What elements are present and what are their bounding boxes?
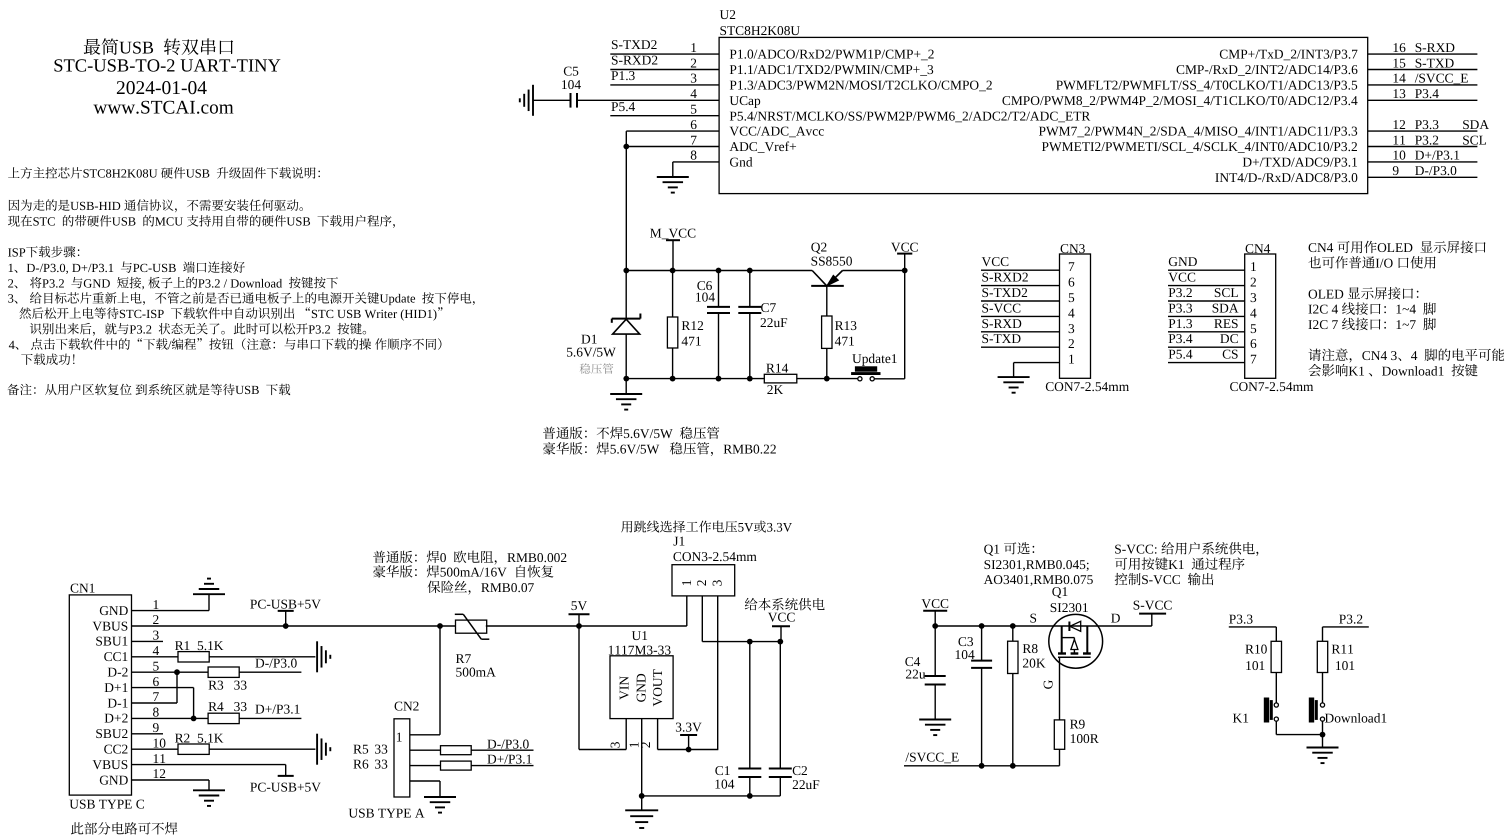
label: net P3.4	[1168, 331, 1193, 346]
svg-text:S-TXD: S-TXD	[982, 331, 1022, 346]
svg-text:S-RXD2: S-RXD2	[611, 53, 658, 68]
label: C5 refdes	[563, 64, 579, 79]
svg-text:VIN: VIN	[617, 676, 632, 700]
svg-text:Update1: Update1	[852, 351, 898, 366]
label: R7 refdes	[456, 651, 472, 666]
svg-text:R10: R10	[1245, 642, 1268, 657]
label: net P5.4	[1168, 347, 1193, 362]
svg-text:,: ,	[142, 276, 145, 290]
label: C1 refdes	[715, 763, 731, 778]
svg-text:USB: USB	[112, 215, 136, 229]
label: U1 value 1117M3-33	[608, 643, 672, 658]
svg-text:CON7-2.54mm: CON7-2.54mm	[1230, 379, 1315, 394]
svg-text:D-1: D-1	[107, 695, 128, 710]
label: CN1 pin name CC2	[104, 742, 129, 757]
svg-text:104: 104	[955, 647, 975, 662]
svg-text:VCC: VCC	[1168, 270, 1196, 285]
label: note 普通版 D1	[543, 426, 719, 441]
label: U1 pin number 2	[638, 741, 653, 748]
label: U2 pin name UCap	[729, 93, 761, 108]
label: net VCC	[891, 239, 919, 254]
label: net P3.4	[1415, 86, 1440, 101]
svg-text:Q1: Q1	[984, 541, 1000, 556]
svg-text:SBU1: SBU1	[95, 634, 128, 649]
svg-text:3.3V: 3.3V	[675, 720, 702, 735]
svg-text:4: 4	[1250, 305, 1257, 320]
junction C1 top	[747, 639, 753, 645]
ground C4	[919, 719, 951, 721]
svg-text:5: 5	[153, 658, 160, 673]
ground U2 pin8	[657, 176, 689, 178]
label: Download1 label	[1325, 711, 1388, 726]
label: U2 pin number 1	[690, 40, 697, 55]
wire U2 pin 10	[1368, 161, 1478, 163]
connector CN4 box	[1245, 254, 1276, 378]
svg-text:OLED: OLED	[1308, 286, 1344, 301]
junction R13-R14	[824, 376, 830, 382]
svg-text:1~7: 1~7	[1395, 317, 1416, 332]
label: net P3.3 k1	[1229, 611, 1254, 626]
svg-text:2: 2	[638, 741, 653, 748]
resistor R10	[1271, 641, 1281, 672]
svg-text:RMB0.22: RMB0.22	[723, 442, 776, 457]
label: net P3.3	[1415, 117, 1440, 132]
junction D+1/D+2	[191, 716, 197, 722]
label: net S-VCC	[982, 300, 1022, 315]
svg-text:OLED: OLED	[1377, 240, 1413, 255]
ground CC2 (rotated)	[316, 734, 318, 765]
wire CN1 pin6 D+1	[132, 687, 194, 689]
svg-text:M_VCC: M_VCC	[650, 225, 696, 240]
power PC-USB+5V top	[278, 610, 294, 612]
label: net S-TXD	[982, 331, 1022, 346]
resistor R4	[208, 713, 239, 723]
svg-text:0: 0	[440, 550, 447, 565]
svg-text:S-RXD: S-RXD	[982, 316, 1023, 331]
svg-text:1: 1	[396, 730, 403, 745]
svg-text:S-VCC: S-VCC	[1141, 572, 1181, 587]
svg-text:R5: R5	[353, 741, 369, 756]
wire M_VCC rail	[626, 270, 812, 272]
power PC-USB+5V bottom	[278, 775, 294, 777]
wire R11 to Download1	[1322, 673, 1324, 704]
label: net SCL	[1462, 132, 1487, 147]
label: Q1 refdes	[1052, 584, 1068, 599]
label: CN1 pin number 8	[153, 705, 160, 720]
wire U2 pin 15	[1368, 69, 1478, 71]
svg-text:DC: DC	[1220, 331, 1239, 346]
label: note right line 2	[1308, 256, 1435, 271]
label: U2 pin number 11	[1392, 132, 1405, 147]
svg-text:S-TXD: S-TXD	[1415, 55, 1455, 70]
svg-text:5.6V/5W: 5.6V/5W	[610, 442, 660, 457]
svg-text:GND: GND	[99, 603, 128, 618]
junction rail-CN2	[437, 623, 443, 629]
label: U2 pin name P5.4	[729, 108, 1090, 123]
label: C4 value 22u	[905, 667, 925, 682]
svg-text:1: 1	[1068, 352, 1075, 367]
wire CN1 pin9 SBU2	[132, 733, 164, 735]
svg-text:6: 6	[1068, 275, 1075, 290]
label: note SI2301 price	[984, 557, 1090, 572]
svg-text:100R: 100R	[1070, 731, 1099, 746]
label: note right line 3	[1308, 286, 1418, 301]
junction 3.3V	[686, 747, 692, 753]
svg-text:10: 10	[1392, 148, 1406, 163]
svg-text:3: 3	[690, 71, 697, 86]
wire rail down to CN2	[439, 626, 441, 735]
label: R5 refdes	[353, 741, 369, 756]
IC U2 MCU STC8H2K08U box	[719, 37, 1368, 193]
svg-text:S-VCC:: S-VCC:	[1114, 541, 1157, 556]
junction rail-C7	[747, 268, 753, 274]
junction U1 gnd	[639, 793, 645, 799]
svg-text:S-RXD2: S-RXD2	[982, 270, 1029, 285]
label: CN1 pin number 5	[153, 658, 160, 673]
svg-text:SI2301,RMB0.045;: SI2301,RMB0.045;	[984, 557, 1090, 572]
svg-text:/SVCC_E: /SVCC_E	[1415, 71, 1469, 86]
label: note line 7	[8, 292, 475, 306]
label: U2 pin name ADC_Vref+	[729, 139, 796, 154]
junction D1-gnd	[623, 376, 629, 382]
label: CN1 pin name VBUS	[92, 618, 128, 633]
label: CN4 pin number 5	[1250, 321, 1257, 336]
svg-text:5: 5	[690, 102, 697, 117]
switch Update1	[858, 377, 862, 381]
svg-text:I/O: I/O	[1375, 256, 1393, 271]
wire U1 VOUT	[657, 719, 659, 750]
label: R13 value 471	[835, 334, 855, 349]
svg-text:CN4: CN4	[1245, 241, 1271, 256]
svg-text:U2: U2	[720, 7, 736, 22]
wire CN3 pin1 to ground	[1013, 363, 1015, 378]
svg-text:5.1K: 5.1K	[197, 731, 224, 746]
ground CN2	[424, 796, 456, 798]
label: C2 value 22uF	[792, 777, 820, 792]
svg-text:4: 4	[1068, 305, 1075, 320]
label: CN1 pin name SBU2	[95, 726, 128, 741]
wire CN3 pin 1	[1014, 362, 1060, 364]
svg-text:3: 3	[1068, 321, 1075, 336]
label: net GND	[1168, 254, 1197, 269]
wire CN4 pin 5	[1168, 331, 1245, 333]
svg-text:5.1K: 5.1K	[197, 638, 224, 653]
wire CN1 pin8 D+2	[132, 717, 209, 719]
diode D1 zener	[625, 271, 627, 319]
svg-text:VCC: VCC	[921, 596, 949, 611]
label: U2 pin name P1.3	[729, 78, 992, 93]
wire U2 pin 1	[610, 53, 719, 55]
resistor R1	[178, 652, 209, 662]
svg-text:1: 1	[690, 40, 697, 55]
svg-text:16: 16	[1392, 40, 1406, 55]
ground CN1 pin12	[193, 789, 225, 791]
label: R5 value 33	[374, 741, 388, 756]
label: U2 pin number 13	[1392, 86, 1406, 101]
label: net P3.2	[1168, 285, 1192, 300]
label: C6 value 104	[695, 290, 715, 305]
label: note line 6	[8, 276, 338, 290]
svg-text:2: 2	[1068, 336, 1075, 351]
label: net 3.3V	[675, 720, 702, 735]
label: R10 refdes	[1245, 642, 1268, 657]
wire R7 to J1	[486, 625, 687, 627]
svg-text:R13: R13	[835, 318, 858, 333]
label: U2 pin name P3.4	[1002, 93, 1358, 108]
wire U2 pin 13	[1368, 99, 1478, 101]
label: Q1 pin G	[1040, 679, 1055, 689]
wire U2 pin 12	[1368, 130, 1478, 132]
wire CN1 pin10 CC2	[132, 748, 179, 750]
label: note 给本系统供电	[745, 598, 825, 611]
label: R3 value 33	[234, 678, 248, 693]
svg-text:D-/P3.0: D-/P3.0	[255, 655, 297, 670]
junction VCC out	[777, 639, 783, 645]
label: note line 9	[30, 322, 366, 336]
svg-text:C7: C7	[761, 300, 777, 315]
svg-text:VBUS: VBUS	[92, 757, 128, 772]
label: CN3 pin number 6	[1068, 275, 1075, 290]
svg-text:Download1: Download1	[1382, 363, 1445, 378]
label: U2 pin name Gnd	[729, 155, 752, 170]
svg-text:4: 4	[9, 338, 16, 352]
label: U2 refdes	[720, 7, 736, 22]
label: U2 pin name VCC	[729, 124, 824, 139]
svg-text:R3: R3	[208, 678, 224, 693]
svg-text:2K: 2K	[767, 382, 784, 397]
wire U2 pin 16	[1368, 53, 1478, 55]
label: CN4 pin number 3	[1250, 290, 1257, 305]
label: R8 refdes	[1022, 641, 1038, 656]
label: R11 value 101	[1335, 658, 1355, 673]
ground CN1 pin1 (flipped)	[193, 593, 225, 595]
label: R4 refdes	[208, 699, 224, 714]
svg-text:I2C 7: I2C 7	[1308, 317, 1339, 332]
svg-text:SI2301: SI2301	[1050, 600, 1089, 615]
label: note line 8	[19, 307, 442, 321]
label: CN4 pin number 1	[1250, 259, 1257, 274]
svg-text:PC-USB+5V: PC-USB+5V	[250, 596, 321, 611]
svg-text:GND: GND	[634, 673, 649, 702]
wire CN3 pin 5	[981, 300, 1060, 302]
label: U2 pin name P3.1	[1242, 155, 1357, 170]
wire VCC to S-VCC rail	[935, 625, 1152, 627]
label: U2 pin number 3	[690, 71, 697, 86]
svg-text:R9: R9	[1070, 717, 1086, 732]
svg-text:CS: CS	[1222, 347, 1238, 362]
label: C5 value 104	[561, 77, 581, 92]
label: net P1.3	[611, 68, 636, 83]
label: CN4 type CON7-2.54mm	[1230, 379, 1315, 394]
wire CN4 pin 4	[1168, 315, 1245, 317]
label: R6 value 33	[374, 757, 388, 772]
label: CN1 pin name D+1	[104, 680, 128, 695]
svg-text:33: 33	[374, 741, 388, 756]
label: CN1 pin number 6	[153, 674, 160, 689]
svg-text:PWM7_2/PWM4N_2/SDA_4/MISO_4/IN: PWM7_2/PWM4N_2/SDA_4/MISO_4/INT1/ADC11/P…	[1039, 124, 1358, 139]
svg-text:33: 33	[374, 757, 388, 772]
label: CN4 pin number 4	[1250, 305, 1257, 320]
label: net VCC	[982, 254, 1010, 269]
label: U2 pin number 12	[1392, 117, 1405, 132]
label: J1 pin number 1	[679, 580, 694, 587]
svg-text:2: 2	[8, 276, 14, 290]
label: J1 pin number 3	[710, 579, 725, 586]
resistor R3	[208, 667, 239, 677]
svg-text:GND: GND	[83, 276, 110, 290]
label: note right line 6	[1308, 348, 1504, 363]
svg-text:3: 3	[1250, 290, 1257, 305]
label: note S-VCC 1	[1114, 541, 1258, 556]
junction K1 gnd	[1320, 732, 1326, 738]
wire U2 pin 8	[673, 161, 719, 163]
svg-text:USB: USB	[186, 167, 210, 181]
label: net DC	[1220, 331, 1239, 346]
wire CN1 pin5 D-2	[132, 671, 209, 673]
svg-text:101: 101	[1335, 658, 1355, 673]
resistor R12	[672, 271, 674, 318]
svg-text:D+2: D+2	[104, 711, 128, 726]
svg-text:K1: K1	[1168, 557, 1184, 572]
label: net S-TXD2	[982, 285, 1028, 300]
label: U1 refdes	[632, 628, 648, 643]
svg-text:P3.4: P3.4	[1168, 331, 1193, 346]
label: CN1 pin number 7	[153, 689, 160, 704]
label: R4 value 33	[234, 699, 248, 714]
svg-text:13: 13	[1392, 86, 1406, 101]
power M_VCC	[666, 239, 680, 241]
svg-text:9: 9	[153, 720, 160, 735]
svg-text:6: 6	[690, 117, 697, 132]
svg-text:D-/P3.0, D+/P3.1: D-/P3.0, D+/P3.1	[26, 261, 114, 275]
svg-text:K1: K1	[1348, 363, 1364, 378]
power S-VCC	[1139, 613, 1166, 615]
svg-text:P1.3/ADC3/PWM2N/MOSI/T2CLKO/CM: P1.3/ADC3/PWM2N/MOSI/T2CLKO/CMPO_2	[729, 78, 992, 93]
svg-text:J1: J1	[673, 534, 685, 549]
junction R12-gnd	[670, 376, 676, 382]
svg-text:1: 1	[8, 261, 14, 275]
svg-text:CMP-/RxD_2/INT2/ADC14/P3.6: CMP-/RxD_2/INT2/ADC14/P3.6	[1176, 62, 1358, 77]
label: note 普通版 R7	[373, 550, 567, 565]
label: net S-TXD	[1415, 55, 1455, 70]
resistor R5	[441, 746, 472, 755]
label: note line 1	[8, 167, 320, 181]
svg-text:D-2: D-2	[107, 665, 128, 680]
connector J1 box	[672, 565, 735, 596]
label: U2 pin name P3.7	[1219, 47, 1358, 62]
svg-text:D+1: D+1	[104, 680, 128, 695]
svg-text:P3.2: P3.2	[1415, 132, 1439, 147]
svg-text:20K: 20K	[1022, 655, 1045, 670]
resistor R14	[764, 374, 797, 383]
label: note right line 4	[1308, 302, 1436, 317]
label: net S-RXD2	[611, 53, 658, 68]
svg-text:2024-01-04: 2024-01-04	[116, 78, 207, 99]
svg-text:ISP: ISP	[8, 245, 26, 259]
wire CC1 to ground	[209, 656, 315, 658]
svg-text:1~4: 1~4	[1395, 302, 1416, 317]
wire CN4 pin 1	[1168, 269, 1245, 271]
svg-text:STC-ISP: STC-ISP	[119, 307, 164, 321]
wire CN4 pin 2	[1168, 285, 1245, 287]
label: U2 value STC8H2K08U	[720, 23, 801, 38]
label: U2 pin number 8	[690, 148, 697, 163]
label: CN1 pin name CC1	[104, 649, 129, 664]
junction rail-C6	[716, 268, 722, 274]
svg-text:P1.1/ADC1/TXD2/PWMIN/CMP+_3: P1.1/ADC1/TXD2/PWMIN/CMP+_3	[729, 62, 934, 77]
junction C3 bottom	[979, 763, 985, 769]
wire D+ to label	[471, 765, 533, 767]
label: CN1 pin name D+2	[104, 711, 128, 726]
svg-text:P3.2: P3.2	[308, 322, 331, 336]
label: net 5V	[571, 598, 588, 613]
svg-text:CMP+/TxD_2/INT3/P3.7: CMP+/TxD_2/INT3/P3.7	[1219, 47, 1358, 62]
label: note S-VCC 3	[1115, 572, 1214, 587]
svg-text:S-VCC: S-VCC	[982, 300, 1022, 315]
label: U2 pin number 2	[690, 55, 697, 70]
label: U1 pin VOUT	[650, 669, 665, 706]
label: R11 refdes	[1331, 642, 1353, 657]
svg-text:104: 104	[714, 777, 734, 792]
svg-text:22uF: 22uF	[792, 777, 820, 792]
svg-text:11: 11	[153, 751, 166, 766]
svg-text:CMPO/PWM8_2/PWM4P_2/MOSI_4/T1C: CMPO/PWM8_2/PWM4P_2/MOSI_4/T1CLKO/T0/ADC…	[1002, 93, 1358, 108]
svg-text:S-TXD2: S-TXD2	[611, 37, 657, 52]
label: CN3 pin number 3	[1068, 321, 1075, 336]
label: net CS	[1222, 347, 1238, 362]
svg-text:15: 15	[1392, 55, 1406, 70]
svg-text:2: 2	[1250, 275, 1257, 290]
svg-text:5V: 5V	[738, 520, 755, 535]
junction R8 bottom	[1010, 763, 1016, 769]
label: D1 value 稳压管	[580, 363, 614, 374]
label: CN3 pin number 7	[1068, 259, 1075, 274]
svg-text:SCL: SCL	[1214, 285, 1239, 300]
svg-text:R4: R4	[208, 699, 224, 714]
wire U2 pin 5	[610, 115, 719, 117]
svg-text:P3.2: P3.2	[1168, 285, 1192, 300]
svg-text:2: 2	[690, 55, 697, 70]
svg-text:VCC: VCC	[982, 254, 1010, 269]
svg-text:S: S	[1030, 610, 1037, 625]
power VCC left	[923, 610, 947, 612]
svg-text:STC8H2K08U: STC8H2K08U	[83, 167, 158, 181]
wire CN3 pin 6	[981, 285, 1060, 287]
label: U2 pin name P3.3	[1039, 124, 1358, 139]
svg-text:P3.3: P3.3	[1168, 300, 1193, 315]
wire CN1 pin12 GND	[132, 779, 210, 781]
label: CN2 pin number 1	[396, 730, 403, 745]
label: U2 pin name P1.1	[729, 62, 934, 77]
junction rail-D1	[623, 268, 629, 274]
svg-text:P3.3: P3.3	[1229, 611, 1254, 626]
svg-text:7: 7	[690, 132, 697, 147]
svg-text:R1: R1	[175, 638, 191, 653]
wire Q1 gate	[1059, 657, 1061, 720]
label: note line 5	[8, 261, 245, 275]
label: U2 pin number 4	[690, 86, 697, 101]
wire CN4 pin 3	[1168, 300, 1245, 302]
label: note S-VCC 2	[1115, 557, 1245, 572]
label: U2 pin number 16	[1392, 40, 1406, 55]
label: net /SVCC_E	[1415, 71, 1469, 86]
label: Q1 pin D	[1111, 610, 1121, 625]
wire CN1 pin3 SBU1	[132, 640, 164, 642]
svg-text:S-VCC: S-VCC	[1133, 597, 1173, 612]
label: R12 value 471	[681, 334, 701, 349]
ground mid section	[625, 379, 627, 394]
svg-text:INT4/D-/RxD/ADC8/P3.0: INT4/D-/RxD/ADC8/P3.0	[1215, 170, 1358, 185]
